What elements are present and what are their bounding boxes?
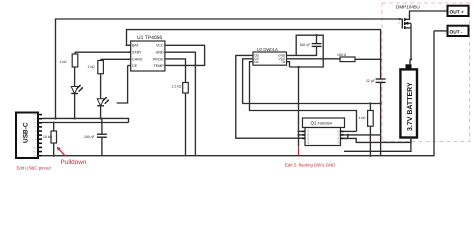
USB-C connector J1	[16, 113, 42, 159]
svg-text:DMP1045U: DMP1045U	[396, 4, 420, 9]
wire source to battery	[410, 28, 412, 59]
wire VBUS top rail	[56, 19, 403, 118]
wire BAT/R1 junction	[126, 44, 128, 46]
wire U2 OC	[250, 62, 357, 132]
svg-text:USB-C: USB-C	[22, 122, 29, 143]
svg-text:22 µF: 22 µF	[366, 79, 375, 83]
drain stub to OUT+	[405, 11, 448, 19]
svg-text:GND: GND	[33, 155, 38, 158]
wire BAT rail	[127, 30, 381, 60]
IC U2 DW01A	[253, 47, 287, 65]
svg-text:BAT: BAT	[132, 44, 140, 48]
resistor R1 1k	[60, 52, 78, 67]
capacitor C1 100nF	[84, 118, 107, 155]
resistor R6 1k (CS)	[359, 102, 374, 157]
wire U2 GND to C2	[287, 47, 317, 56]
wire CE	[117, 66, 128, 104]
svg-text:VBUS: VBUS	[32, 150, 38, 153]
svg-text:1.2 kΩ: 1.2 kΩ	[172, 85, 182, 89]
bottom stub	[405, 27, 411, 29]
IC U1 TP4056	[128, 35, 168, 71]
svg-text:PROG: PROG	[153, 58, 164, 62]
middle stub with arrow	[405, 22, 411, 24]
svg-text:STBY: STBY	[132, 50, 142, 54]
connector OUT+	[448, 6, 469, 16]
LED D2	[97, 74, 109, 120]
svg-text:U1 TP4056: U1 TP4056	[137, 35, 162, 41]
svg-text:100 Ω: 100 Ω	[337, 53, 347, 57]
svg-text:1 kΩ: 1 kΩ	[359, 116, 367, 120]
wire lower link	[344, 142, 411, 151]
wire VCC down to Q1 area	[290, 59, 324, 67]
svg-text:D1 D2 S2 G2: D1 D2 S2 G2	[338, 129, 341, 144]
wire U2 OD	[236, 55, 305, 138]
resistor R4 100	[337, 53, 381, 62]
wire U2 TD	[287, 62, 290, 67]
svg-text:GND: GND	[156, 50, 164, 54]
svg-text:OUT +: OUT +	[450, 9, 464, 15]
svg-text:G: G	[398, 22, 400, 25]
battery BT1	[400, 64, 417, 142]
wire U1 GND down	[168, 52, 195, 156]
svg-text:Edit USBC pinout: Edit USBC pinout	[17, 166, 52, 171]
wire GND bottom rail	[42, 31, 434, 156]
svg-text:VBUS: VBUS	[32, 118, 38, 121]
svg-text:CC1: CC1	[34, 122, 38, 125]
svg-text:1 kΩ: 1 kΩ	[88, 65, 96, 69]
svg-text:SBU1: SBU1	[32, 146, 37, 149]
svg-text:10 kΩ: 10 kΩ	[43, 135, 52, 139]
red annotation: Pulldown	[57, 147, 87, 166]
svg-text:TD: TD	[281, 60, 286, 64]
svg-text:GND: GND	[33, 114, 38, 117]
svg-text:U2 DW01A: U2 DW01A	[257, 47, 278, 52]
connector OUT-	[434, 26, 469, 36]
wire Q1 to battery minus	[344, 138, 411, 142]
wire LED rail	[42, 118, 129, 122]
gate bar	[401, 19, 403, 29]
svg-text:OC: OC	[254, 60, 259, 64]
svg-text:Edit 2: floating DW's GND: Edit 2: floating DW's GND	[285, 163, 335, 168]
wire U1 VCC loop	[168, 45, 205, 65]
svg-text:CHRG: CHRG	[132, 58, 143, 62]
wire U2 CS (B+ sense)	[243, 59, 381, 104]
channel dashes	[404, 18, 406, 29]
svg-text:100 nF: 100 nF	[300, 43, 311, 47]
svg-text:VCC: VCC	[156, 44, 164, 48]
svg-text:3.7V BATTERY: 3.7V BATTERY	[407, 82, 414, 131]
svg-text:TEMP: TEMP	[154, 64, 165, 68]
resistor R3 1.2k PROG	[168, 59, 188, 156]
svg-text:S1 G1 D1 D2: S1 G1 D1 D2	[307, 129, 310, 144]
svg-text:1 kΩ: 1 kΩ	[60, 60, 68, 64]
capacitor C2 100nF	[300, 35, 322, 47]
wire red floating GND	[298, 146, 300, 155]
MOSFET Q2 DMP1045U	[396, 4, 448, 29]
wire DW GND vertical	[298, 67, 300, 146]
svg-text:OUT -: OUT -	[450, 29, 463, 35]
wire STBY	[75, 51, 131, 53]
wire C2 top loop	[296, 35, 323, 59]
svg-text:CE: CE	[132, 64, 138, 68]
wire CC rail	[42, 122, 129, 124]
junction TEMP-GND	[194, 64, 196, 66]
dashed highlight box (right section)	[382, 3, 470, 142]
wire U2 VCC	[287, 58, 341, 60]
LED D1	[71, 67, 83, 120]
capacitor C3 22uF	[366, 59, 386, 155]
wire CHRG	[101, 58, 131, 60]
svg-text:100 nF: 100 nF	[84, 135, 95, 139]
resistor R5 10k pulldown	[43, 122, 57, 157]
resistor R2 1k	[88, 59, 104, 73]
Q1 left pin wires	[299, 130, 303, 132]
svg-text:Q1 FS8205A: Q1 FS8205A	[311, 120, 333, 125]
transistor Q1 FS8205A	[302, 118, 345, 146]
junction VBUS/LED rail	[54, 117, 56, 119]
svg-text:CC2: CC2	[34, 126, 38, 129]
Q1 right pin wires	[344, 130, 357, 132]
svg-text:Pulldown: Pulldown	[61, 159, 87, 166]
